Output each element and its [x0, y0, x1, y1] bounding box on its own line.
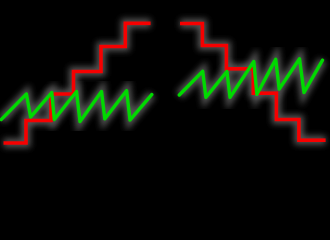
halo of left red staircase [4, 23, 151, 143]
right red staircase [180, 24, 326, 141]
right green sawtooth [179, 59, 322, 98]
halo of left green sawtooth [1, 91, 152, 122]
halo of right red staircase [180, 24, 326, 141]
halo of right green sawtooth [179, 59, 322, 98]
left red staircase [4, 23, 151, 143]
left green sawtooth [1, 91, 152, 122]
